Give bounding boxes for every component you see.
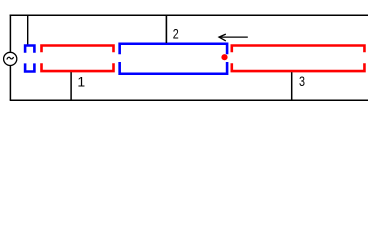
arrow indicating field travel direction: [219, 34, 248, 41]
coil 1 top bracket (red): [42, 46, 114, 53]
wire from top bus down to small blue coil: [27, 15, 29, 46]
svg-text:1: 1: [77, 74, 85, 90]
coil 3 top bracket (red): [232, 46, 365, 53]
wire top bus: [10, 14, 368, 16]
wire coil 3 to bottom bus: [291, 72, 293, 100]
wire from top bus down to AC source: [9, 15, 11, 52]
svg-text:2: 2: [173, 26, 179, 42]
coil 3 bottom bracket (red): [232, 63, 365, 71]
coil 1 bottom bracket (red): [42, 63, 114, 71]
wire from top bus down to coil 2: [165, 15, 167, 44]
wire bottom bus: [10, 99, 368, 101]
small blue coil top bracket: [25, 46, 34, 53]
wire from AC source down to bottom bus: [9, 66, 11, 100]
coil 2 top bracket (blue): [120, 44, 227, 55]
wire coil 1 to bottom bus: [70, 72, 72, 100]
svg-text:3: 3: [299, 73, 305, 89]
rotor dot (red marker): [221, 54, 227, 60]
small blue coil bottom bracket: [25, 63, 34, 71]
AC source G1: [4, 52, 17, 65]
coil 2 bottom bracket (blue): [120, 62, 227, 74]
